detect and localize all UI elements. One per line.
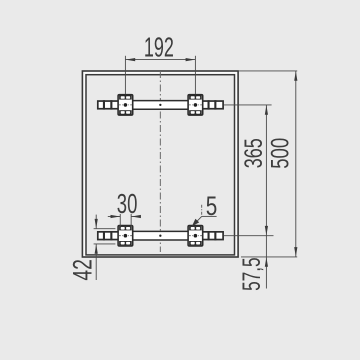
svg-text:42: 42 [66, 259, 97, 281]
panel outer outline [82, 71, 238, 257]
dim 30: lines [108, 216, 120, 218]
svg-text:57,5: 57,5 [239, 257, 266, 291]
svg-text:192: 192 [144, 32, 174, 63]
bracket bottom-right [188, 226, 203, 246]
dim 57,5 arrow up [265, 257, 268, 267]
dim 42: ext lines [94, 228, 116, 230]
svg-text:5: 5 [206, 191, 218, 221]
label 5: underline [202, 215, 217, 217]
dim 500 line [295, 71, 297, 257]
dim 30: arrows [111, 215, 121, 218]
dim 30: ext lines [119, 214, 121, 226]
bracket top-right [188, 95, 203, 115]
bottom-left arm [98, 231, 119, 240]
panel inner outline [86, 75, 235, 255]
bracket top-left [118, 95, 133, 115]
right ext line top edge [239, 70, 297, 72]
dim 500 arrow up [294, 71, 297, 81]
bottom rail [131, 231, 189, 241]
dim 500 arrow down [294, 247, 297, 257]
top-right arm [203, 100, 224, 109]
dim 365 line [265, 105, 267, 289]
svg-text:500: 500 [267, 138, 294, 169]
svg-text:365: 365 [241, 138, 268, 168]
bracket bottom-left [118, 226, 133, 246]
dim 365 arrow up [265, 105, 268, 115]
dim 42: top shaft + arrow [95, 215, 97, 229]
top-left arm [98, 100, 119, 109]
label 5: centerline stub [201, 205, 203, 217]
bottom-right arm [203, 231, 224, 240]
dim 192: dimension line [125, 59, 195, 61]
top rail center hole [159, 104, 161, 106]
dim 192: left arrow [126, 58, 136, 61]
vertical centerline [159, 71, 161, 252]
dim 192: right arrow [186, 58, 196, 61]
dim 192: extension lines [124, 56, 126, 94]
dim 42: bottom shaft + arrow [95, 244, 97, 280]
top rail [131, 100, 189, 110]
right ext line bottom rail [224, 235, 274, 237]
label 5: leader [193, 216, 202, 225]
right ext line bottom edge [241, 256, 297, 258]
label 5: arrowhead [192, 219, 199, 226]
bottom rail center hole [159, 235, 161, 237]
right ext line top rail [224, 104, 272, 106]
svg-text:30: 30 [117, 188, 138, 219]
dim 365 arrow down [265, 226, 268, 236]
